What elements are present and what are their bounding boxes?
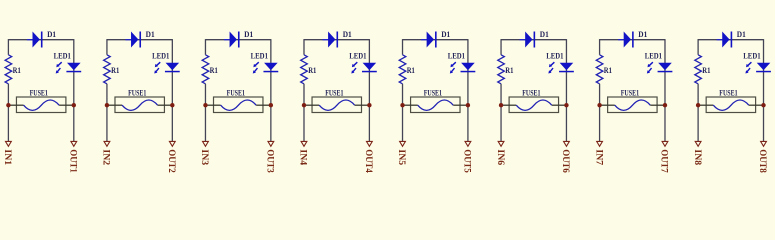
svg-text:LED1: LED1 <box>251 51 268 60</box>
diode D1 channel 6 <box>520 32 536 48</box>
label D1 channel 2 <box>146 30 155 39</box>
svg-text:FUSE1: FUSE1 <box>30 88 48 97</box>
label LED1 channel 7 <box>645 51 662 60</box>
LED LED1 channel 5 <box>450 62 475 73</box>
svg-text:R1: R1 <box>111 66 119 75</box>
wire left upper stub channel 1 <box>7 39 9 55</box>
port IN7 <box>593 141 603 165</box>
label LED1 channel 2 <box>152 51 169 60</box>
svg-text:OUT2: OUT2 <box>166 149 176 173</box>
wire top rail channel 1 <box>8 39 73 41</box>
label LED1 channel 1 <box>54 51 71 60</box>
wire top rail channel 4 <box>304 39 369 41</box>
svg-text:FUSE1: FUSE1 <box>424 88 442 97</box>
wire left lower channel 4 <box>303 84 305 142</box>
label FUSE1 channel 7 <box>621 88 639 97</box>
resistor R1 channel 1 <box>5 55 12 84</box>
fuse FUSE1 channel 3 <box>205 97 270 113</box>
junction left channel 8 <box>696 103 700 107</box>
label D1 channel 6 <box>540 30 549 39</box>
svg-text:R1: R1 <box>505 66 513 75</box>
label D1 channel 3 <box>244 30 253 39</box>
port IN2 <box>101 141 111 165</box>
wire top rail channel 5 <box>403 39 468 41</box>
port IN3 <box>199 141 209 165</box>
svg-text:D1: D1 <box>441 30 450 39</box>
svg-text:IN8: IN8 <box>692 149 702 165</box>
svg-text:R1: R1 <box>407 66 415 75</box>
label FUSE1 channel 4 <box>325 88 343 97</box>
port IN4 <box>298 141 308 165</box>
svg-text:LED1: LED1 <box>645 51 662 60</box>
svg-text:IN4: IN4 <box>298 149 308 165</box>
port IN1 <box>2 141 12 165</box>
fuse FUSE1 channel 4 <box>304 97 369 113</box>
svg-text:LED1: LED1 <box>743 51 760 60</box>
diode D1 channel 7 <box>618 32 634 48</box>
wire left lower channel 2 <box>106 84 108 142</box>
label FUSE1 channel 5 <box>424 88 442 97</box>
svg-text:IN5: IN5 <box>396 149 406 165</box>
wire right channel 3 <box>270 39 272 141</box>
wire top rail channel 8 <box>698 39 763 41</box>
junction left channel 1 <box>6 103 10 107</box>
wire top rail channel 2 <box>107 39 172 41</box>
junction right channel 4 <box>367 103 371 107</box>
label LED1 channel 3 <box>251 51 268 60</box>
label D1 channel 8 <box>737 30 746 39</box>
wire left upper stub channel 8 <box>697 39 699 55</box>
diode D1 channel 4 <box>322 32 338 48</box>
label LED1 channel 5 <box>448 51 465 60</box>
wire left lower channel 7 <box>599 84 601 142</box>
port OUT2 <box>166 141 176 173</box>
fuse FUSE1 channel 6 <box>501 97 566 113</box>
resistor R1 channel 8 <box>695 55 702 84</box>
svg-text:D1: D1 <box>244 30 253 39</box>
fuse FUSE1 channel 5 <box>403 97 468 113</box>
LED LED1 channel 1 <box>56 62 82 73</box>
resistor R1 channel 4 <box>301 55 308 84</box>
svg-text:R1: R1 <box>210 66 218 75</box>
svg-text:IN1: IN1 <box>2 149 12 165</box>
diode D1 channel 5 <box>421 32 437 48</box>
wire left upper stub channel 5 <box>402 39 404 55</box>
svg-text:D1: D1 <box>146 30 155 39</box>
label FUSE1 channel 2 <box>128 88 146 97</box>
port IN5 <box>396 141 406 165</box>
fuse FUSE1 channel 1 <box>8 97 73 113</box>
junction right channel 3 <box>269 103 273 107</box>
svg-text:D1: D1 <box>737 30 746 39</box>
label LED1 channel 8 <box>743 51 760 60</box>
wire right channel 7 <box>664 39 666 141</box>
svg-text:R1: R1 <box>702 66 710 75</box>
junction right channel 7 <box>663 103 667 107</box>
wire left upper stub channel 7 <box>599 39 601 55</box>
label R1 channel 3 <box>210 66 218 75</box>
svg-text:FUSE1: FUSE1 <box>128 88 146 97</box>
junction right channel 1 <box>72 103 76 107</box>
label R1 channel 8 <box>702 66 710 75</box>
svg-text:OUT7: OUT7 <box>659 149 669 173</box>
wire left lower channel 6 <box>500 84 502 142</box>
wire right channel 2 <box>171 39 173 141</box>
label R1 channel 7 <box>604 66 612 75</box>
resistor R1 channel 2 <box>104 55 111 84</box>
fuse FUSE1 channel 8 <box>698 97 763 113</box>
label LED1 channel 4 <box>349 51 366 60</box>
junction left channel 5 <box>400 103 404 107</box>
LED LED1 channel 7 <box>647 62 673 73</box>
wire right channel 4 <box>368 39 370 141</box>
wire right channel 5 <box>467 39 469 141</box>
svg-text:R1: R1 <box>13 66 21 75</box>
sheet background <box>0 0 775 190</box>
svg-text:OUT5: OUT5 <box>462 149 472 173</box>
svg-text:IN3: IN3 <box>199 149 209 165</box>
svg-text:OUT6: OUT6 <box>560 149 570 173</box>
label FUSE1 channel 1 <box>30 88 48 97</box>
label D1 channel 4 <box>343 30 352 39</box>
wire left upper stub channel 6 <box>500 39 502 55</box>
port OUT1 <box>68 141 78 173</box>
resistor R1 channel 3 <box>202 55 209 84</box>
junction left channel 6 <box>499 103 503 107</box>
label R1 channel 4 <box>308 66 316 75</box>
port OUT4 <box>363 141 373 173</box>
wire top rail channel 3 <box>205 39 270 41</box>
diode D1 channel 1 <box>27 32 43 48</box>
port IN6 <box>495 141 505 165</box>
svg-text:FUSE1: FUSE1 <box>522 88 540 97</box>
label R1 channel 6 <box>505 66 513 75</box>
junction left channel 2 <box>105 103 109 107</box>
svg-text:FUSE1: FUSE1 <box>719 88 737 97</box>
junction right channel 5 <box>466 103 470 107</box>
svg-text:D1: D1 <box>47 30 56 39</box>
label D1 channel 7 <box>638 30 647 39</box>
wire top rail channel 6 <box>501 39 566 41</box>
LED LED1 channel 3 <box>253 62 278 73</box>
LED LED1 channel 6 <box>548 62 574 73</box>
label D1 channel 5 <box>441 30 450 39</box>
resistor R1 channel 7 <box>596 55 603 84</box>
wire right channel 6 <box>565 39 567 141</box>
junction right channel 8 <box>761 103 765 107</box>
wire left lower channel 1 <box>7 84 9 142</box>
port OUT6 <box>560 141 570 173</box>
wire left lower channel 8 <box>697 84 699 142</box>
svg-text:LED1: LED1 <box>546 51 563 60</box>
label D1 channel 1 <box>47 30 56 39</box>
svg-text:FUSE1: FUSE1 <box>621 88 639 97</box>
label FUSE1 channel 8 <box>719 88 737 97</box>
svg-text:OUT4: OUT4 <box>363 149 373 173</box>
svg-text:R1: R1 <box>308 66 316 75</box>
junction right channel 6 <box>564 103 568 107</box>
wire left upper stub channel 3 <box>204 39 206 55</box>
diode D1 channel 2 <box>125 32 141 48</box>
label R1 channel 2 <box>111 66 119 75</box>
svg-text:IN7: IN7 <box>593 149 603 165</box>
svg-text:LED1: LED1 <box>349 51 366 60</box>
label R1 channel 1 <box>13 66 21 75</box>
junction left channel 7 <box>597 103 601 107</box>
wire left upper stub channel 4 <box>303 39 305 55</box>
label LED1 channel 6 <box>546 51 563 60</box>
diode D1 channel 8 <box>717 32 733 48</box>
label R1 channel 5 <box>407 66 415 75</box>
svg-text:OUT1: OUT1 <box>68 149 78 173</box>
svg-text:R1: R1 <box>604 66 612 75</box>
wire left lower channel 3 <box>204 84 206 142</box>
junction left channel 3 <box>203 103 207 107</box>
svg-text:D1: D1 <box>638 30 647 39</box>
svg-text:FUSE1: FUSE1 <box>325 88 343 97</box>
svg-text:LED1: LED1 <box>54 51 71 60</box>
svg-text:LED1: LED1 <box>152 51 169 60</box>
port OUT3 <box>265 141 275 173</box>
svg-text:OUT3: OUT3 <box>265 149 275 173</box>
label FUSE1 channel 3 <box>227 88 245 97</box>
svg-text:D1: D1 <box>540 30 549 39</box>
port OUT8 <box>757 141 767 173</box>
wire left upper stub channel 2 <box>106 39 108 55</box>
port IN8 <box>692 141 702 165</box>
resistor R1 channel 6 <box>498 55 505 84</box>
LED LED1 channel 4 <box>351 62 376 73</box>
fuse FUSE1 channel 2 <box>107 97 172 113</box>
wire right channel 8 <box>763 39 765 141</box>
wire right channel 1 <box>73 39 75 141</box>
svg-text:FUSE1: FUSE1 <box>227 88 245 97</box>
svg-text:IN6: IN6 <box>495 149 505 165</box>
wire top rail channel 7 <box>600 39 665 41</box>
LED LED1 channel 2 <box>154 62 180 73</box>
fuse FUSE1 channel 7 <box>600 97 665 113</box>
diode D1 channel 3 <box>224 32 240 48</box>
svg-text:IN2: IN2 <box>101 149 111 165</box>
junction right channel 2 <box>170 103 174 107</box>
port OUT7 <box>659 141 669 173</box>
svg-text:LED1: LED1 <box>448 51 465 60</box>
wire left lower channel 5 <box>402 84 404 142</box>
LED LED1 channel 8 <box>745 62 771 73</box>
junction left channel 4 <box>302 103 306 107</box>
label FUSE1 channel 6 <box>522 88 540 97</box>
port OUT5 <box>462 141 472 173</box>
svg-text:D1: D1 <box>343 30 352 39</box>
resistor R1 channel 5 <box>399 55 406 84</box>
svg-text:OUT8: OUT8 <box>757 149 767 173</box>
